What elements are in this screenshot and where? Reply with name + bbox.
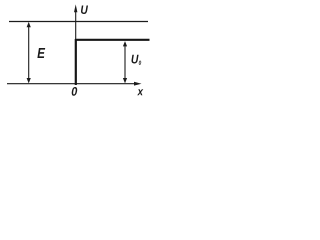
origin label 0 [72, 87, 78, 96]
x-axis label x [137, 89, 143, 95]
y-axis label U [81, 6, 88, 15]
U0 label: subscript 0 [139, 61, 141, 65]
step plateau [75, 39, 150, 41]
step vertical edge [75, 39, 77, 85]
y-axis U [74, 4, 77, 84]
U0 label: U [132, 55, 139, 64]
E-level line [9, 21, 148, 23]
E label [37, 48, 45, 58]
background [0, 0, 165, 103]
x-axis [7, 82, 142, 86]
E dimension arrow [27, 22, 31, 84]
U0 dimension arrow [123, 41, 127, 83]
